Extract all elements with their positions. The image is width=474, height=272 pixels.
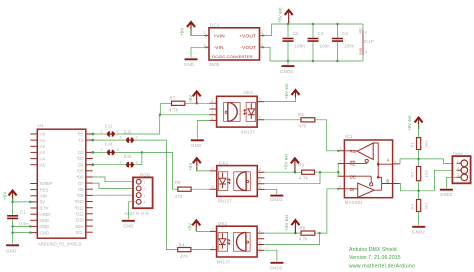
svg-text:MAX481: MAX481: [345, 200, 363, 205]
junction (IC1 pin1): [337, 150, 339, 152]
svg-text:0505: 0505: [209, 62, 220, 67]
wire DMX pin3 to GND2: [446, 177, 456, 188]
ground GND (DC1 input): [184, 47, 198, 67]
arduino shield U1: [37, 123, 86, 246]
svg-text:8: 8: [365, 31, 367, 35]
wire VO node to OK3 pin 6: [160, 114, 210, 116]
svg-text:470: 470: [180, 254, 188, 259]
wire OK1 pin5 to GND2: [264, 189, 276, 194]
svg-text:2: 2: [339, 160, 341, 164]
ground GND2 (DMX): [440, 190, 453, 197]
wire OK2 pin8 to R8: [264, 232, 301, 234]
svg-text:+5V ext: +5V ext: [284, 214, 289, 230]
svg-text:A3: A3: [40, 150, 46, 155]
svg-text:U1: U1: [38, 123, 45, 128]
solder jumper SJ3: [100, 142, 119, 156]
svg-text:IC1P: IC1P: [364, 39, 374, 44]
svg-text:8: 8: [259, 229, 261, 233]
ground GND2 (OK2): [270, 263, 284, 271]
svg-text:R4: R4: [179, 242, 185, 247]
wire R3 to GND2: [418, 212, 420, 226]
svg-text:SCL: SCL: [76, 230, 85, 235]
junction (C2 bottom): [287, 60, 290, 63]
svg-text:2: 2: [211, 167, 213, 171]
svg-text:1: 1: [100, 148, 102, 152]
svg-text:DC/DC CONVERTER: DC/DC CONVERTER: [212, 54, 252, 59]
pin number 1 (DC1 -VIN): [203, 42, 206, 47]
svg-text:DC1: DC1: [210, 22, 220, 27]
resistor R4: [178, 242, 191, 258]
wire DC1 pin 1: [191, 46, 209, 48]
wire R7 right to +5V node: [185, 102, 210, 104]
svg-text:7: 7: [211, 105, 213, 109]
svg-text:DMX: DMX: [453, 151, 463, 156]
svg-text:3: 3: [211, 185, 213, 189]
svg-text:DE: DE: [350, 174, 356, 179]
svg-text:+5V ext: +5V ext: [407, 115, 412, 131]
pin number 3 (DC1 -VOUT): [261, 42, 264, 47]
pin number 4 (DC1 +VOUT): [261, 30, 264, 35]
resistor R5: [264, 112, 315, 129]
svg-text:+VOUT: +VOUT: [239, 33, 256, 38]
OK1 pin stubs right: [257, 168, 264, 189]
svg-text:SJ3: SJ3: [105, 142, 113, 147]
svg-text:SJ4: SJ4: [124, 154, 132, 159]
svg-text:RES: RES: [40, 187, 49, 192]
svg-text:6N137: 6N137: [217, 259, 231, 264]
svg-text:2: 2: [212, 227, 214, 231]
svg-text:8: 8: [259, 168, 261, 172]
power flag +5V (OK3): [188, 91, 201, 103]
svg-text:D4: D4: [78, 162, 84, 167]
optocoupler OK1: [217, 161, 257, 204]
resistor R2: [409, 167, 428, 181]
svg-text:1: 1: [119, 136, 121, 140]
svg-text:GND: GND: [184, 62, 194, 67]
connector DMX: [452, 151, 470, 183]
resistor R9: [298, 163, 315, 181]
wire node A to DMX pin1: [419, 159, 457, 164]
junction (C4 top): [336, 23, 339, 26]
svg-text:VCC: VCC: [359, 27, 363, 34]
svg-text:+5V: +5V: [3, 191, 8, 200]
OK2 pin stubs left: [210, 227, 217, 249]
svg-text:+5V ext: +5V ext: [283, 153, 288, 169]
capacitor C4: [332, 24, 355, 61]
power flag +5V ext (OK1): [283, 153, 299, 172]
resistor R6: [175, 180, 192, 199]
svg-text:GND: GND: [359, 48, 363, 55]
wire R4 to OK2 pin3: [191, 249, 210, 251]
svg-text:1: 1: [339, 147, 341, 151]
svg-text:3: 3: [212, 246, 214, 250]
power flag +5V (OK1): [188, 158, 201, 171]
junction (+5Vext at OK2): [294, 232, 297, 235]
power flag +5V (U1 supply): [3, 191, 17, 202]
IC1 pin stubs right: [393, 160, 400, 184]
svg-text:GND2: GND2: [280, 69, 293, 74]
wire OK3 pin 5 to GND: [197, 120, 209, 138]
wire R7 left to VO node: [159, 103, 161, 115]
svg-text:D13: D13: [76, 218, 84, 223]
OK3 pin stubs right: [257, 98, 264, 120]
svg-text:2: 2: [259, 98, 261, 102]
svg-text:3: 3: [259, 116, 261, 120]
wire OK2 pin5 to GND2: [264, 250, 277, 261]
svg-text:VIN: VIN: [40, 194, 47, 199]
svg-text:7: 7: [259, 174, 261, 178]
svg-text:2: 2: [117, 148, 119, 152]
ground GND (RGB): [122, 221, 135, 229]
svg-text:R7: R7: [170, 96, 176, 101]
svg-text:D2: D2: [78, 150, 84, 155]
wire SJ3/SJ4 node to R6: [142, 152, 178, 189]
junction (C3 bottom): [312, 60, 315, 63]
svg-text:DI: DI: [350, 187, 355, 192]
wire C1 to U1 GND pins: [13, 226, 31, 232]
pin number 2 (DC1 +VIN): [203, 30, 206, 35]
wire DC1 -VOUT to GND2 rail: [260, 47, 364, 61]
junction (+5Vext at OK1): [294, 171, 297, 174]
svg-text:OK2: OK2: [218, 221, 228, 226]
wire R9 to RE/DE node: [315, 171, 339, 173]
junction (+5V at R7): [195, 102, 198, 105]
svg-text:562: 562: [424, 140, 429, 148]
junction (SJ3/SJ4 node): [141, 151, 144, 154]
svg-text:1: 1: [100, 130, 102, 134]
svg-text:562: 562: [424, 202, 429, 210]
solder jumper SJ1: [100, 123, 119, 137]
svg-text:2: 2: [457, 166, 459, 170]
ground GND2 (cap rail): [280, 61, 295, 74]
svg-text:5: 5: [365, 51, 367, 55]
svg-text:SJ2: SJ2: [124, 130, 132, 135]
svg-text:7: 7: [394, 179, 396, 183]
svg-text:C2: C2: [293, 31, 299, 36]
svg-text:GND: GND: [40, 230, 49, 235]
svg-text:R2: R2: [409, 171, 414, 177]
wire OK1 pin8 to R9: [264, 171, 301, 173]
transceiver IC1 MAX481: [344, 134, 392, 205]
svg-text:www.mathertel.de/Arduino: www.mathertel.de/Arduino: [349, 263, 415, 269]
resistor R1: [409, 138, 428, 150]
svg-text:GND2: GND2: [270, 266, 283, 271]
svg-text:1: 1: [457, 159, 459, 163]
junction (VO node): [159, 114, 162, 117]
svg-text:2: 2: [143, 187, 145, 191]
OK3 pin stubs left: [210, 99, 217, 120]
wire +5V to DC1 pin 2: [191, 29, 209, 36]
resistor R7: [160, 96, 185, 113]
svg-text:GND2: GND2: [270, 197, 283, 202]
wire RX riser to VO node: [159, 115, 161, 134]
power flag +5V ext (top rail): [278, 7, 293, 24]
svg-text:5: 5: [211, 116, 213, 120]
svg-text:4: 4: [143, 201, 145, 205]
solder jumper SJ2: [119, 130, 138, 143]
wire RE/DE tie: [337, 164, 340, 177]
junction (5V node left): [11, 201, 14, 204]
svg-text:Arduino DMX Shield: Arduino DMX Shield: [349, 247, 397, 253]
wire IC1 B to node B: [400, 184, 419, 191]
svg-text:6N137: 6N137: [241, 129, 255, 134]
svg-text:2: 2: [136, 136, 138, 140]
ground GND (C1): [6, 245, 19, 253]
wire DC1 +VOUT to +5Vext rail: [260, 24, 364, 36]
wire TX to SJ2: [91, 139, 125, 142]
ground GND2 (OK1): [270, 196, 284, 203]
ground GND (OK3): [191, 140, 204, 148]
U1 right pins RX..SCL: [74, 132, 92, 235]
svg-text:C4: C4: [342, 31, 348, 36]
svg-text:R9: R9: [298, 163, 304, 168]
power pins IC1P: [359, 24, 374, 61]
svg-text:+5V: +5V: [188, 162, 193, 170]
connector RGB: [125, 173, 153, 216]
svg-text:+5V ext: +5V ext: [278, 7, 283, 23]
svg-text:133: 133: [424, 170, 429, 178]
svg-text:100n: 100n: [295, 44, 306, 49]
svg-text:B: B: [386, 179, 389, 184]
svg-text:-VOUT: -VOUT: [240, 45, 256, 50]
svg-text:GND: GND: [191, 143, 201, 148]
OK2 pin stubs right: [257, 229, 264, 250]
junction (C2 top): [287, 23, 290, 26]
junction (C3 top): [312, 23, 315, 26]
wire D6 to RGB pin1: [93, 177, 137, 182]
svg-text:3: 3: [143, 194, 145, 198]
svg-text:5: 5: [259, 246, 261, 250]
optocoupler OK2: [217, 221, 258, 264]
svg-text:100n: 100n: [344, 44, 355, 49]
svg-text:GND2: GND2: [440, 192, 453, 197]
svg-text:6: 6: [211, 111, 213, 115]
junction (RE/DE node): [337, 171, 340, 174]
junction node B: [417, 190, 420, 193]
svg-text:4.7k: 4.7k: [169, 107, 179, 112]
wire D7 to RGB pin2: [93, 183, 137, 188]
svg-text:OK1: OK1: [219, 161, 229, 166]
IC1 pin stubs left: [338, 147, 345, 189]
resistor R8: [299, 225, 315, 241]
svg-text:AREF: AREF: [40, 212, 51, 217]
svg-text:5: 5: [259, 185, 261, 189]
svg-text:GND2: GND2: [412, 229, 425, 234]
svg-text:R6: R6: [175, 180, 181, 185]
wire RX to SJ1: [91, 133, 106, 136]
wire to R1: [418, 124, 420, 138]
junction (C4 bottom): [336, 60, 339, 63]
svg-text:4.7k: 4.7k: [299, 176, 309, 181]
svg-text:A: A: [387, 158, 390, 163]
wire SJ2 to TX net riser: [134, 139, 166, 141]
svg-text:RO: RO: [350, 149, 357, 154]
svg-text:1: 1: [119, 160, 121, 164]
wire IC1 A to node A: [400, 159, 419, 164]
svg-text:RE: RE: [350, 162, 356, 167]
svg-text:A2: A2: [40, 144, 46, 149]
optocoupler OK3: [217, 90, 258, 134]
svg-text:8: 8: [211, 99, 213, 103]
wire R8 node to OK2 pin6: [264, 233, 319, 244]
wire R9 node to OK1 pin6: [264, 172, 320, 184]
svg-text:GND: GND: [40, 218, 49, 223]
dc/dc converter DC1: [205, 22, 265, 67]
svg-text:R3: R3: [409, 203, 414, 209]
svg-text:A5: A5: [40, 162, 46, 167]
wire R5 to IC1 RO: [315, 120, 338, 151]
svg-text:IOREF: IOREF: [40, 181, 53, 186]
svg-text:-VIN: -VIN: [214, 45, 224, 50]
junction (GND rows): [11, 225, 31, 234]
svg-text:*D9: *D9: [77, 193, 85, 198]
svg-text:ARDUINO_R3_SHIELD: ARDUINO_R3_SHIELD: [38, 242, 81, 247]
junction (R9 out): [319, 171, 322, 174]
wire +5V to U1 5V pin: [13, 198, 31, 202]
svg-text:A4: A4: [40, 156, 46, 161]
junction (R8 out): [318, 232, 321, 235]
svg-text:470: 470: [299, 124, 307, 129]
svg-text:7: 7: [259, 235, 261, 239]
wire SJ4 to node: [134, 152, 142, 164]
capacitor C2: [283, 24, 306, 61]
power flag +5V (DC1 input): [180, 22, 196, 36]
wire SJ3 to node: [115, 151, 142, 153]
svg-text:A1: A1: [40, 138, 46, 143]
wire D4 to SJ4: [91, 163, 125, 166]
junction node A: [417, 158, 420, 161]
power flag +5V (OK2): [187, 220, 200, 231]
svg-text:3: 3: [339, 172, 341, 176]
power flag +5V ext (OK3): [284, 83, 300, 99]
svg-text:*D11: *D11: [75, 205, 85, 210]
wire node B to DMX pin2: [419, 170, 457, 191]
power flag +5V ext (bias): [407, 115, 423, 131]
junction (IC1 pin4): [337, 188, 339, 190]
svg-text:5V: 5V: [40, 200, 45, 205]
capacitor C1: [7, 202, 29, 244]
svg-text:6: 6: [394, 160, 396, 164]
power flag +5V ext (OK2): [284, 214, 300, 233]
wire R6 to OK1 pin3: [191, 188, 210, 190]
svg-text:OK3: OK3: [244, 90, 254, 95]
OK1 pin stubs left: [210, 167, 217, 189]
svg-text:2: 2: [117, 130, 119, 134]
svg-text:6: 6: [259, 180, 261, 184]
svg-text:+5V: +5V: [180, 27, 185, 36]
svg-text:R8: R8: [299, 225, 305, 230]
svg-text:2: 2: [136, 160, 138, 164]
svg-text:SJ1: SJ1: [105, 123, 113, 128]
resistor R3: [409, 200, 428, 212]
svg-text:RGB: RGB: [140, 173, 150, 178]
junction (5V at U1 pin): [29, 201, 32, 204]
svg-text:+5V ext: +5V ext: [284, 83, 289, 99]
svg-text:*D3: *D3: [77, 156, 85, 161]
svg-text:C1: C1: [20, 209, 26, 214]
svg-text:GND: GND: [123, 224, 133, 229]
title text: [349, 247, 415, 270]
svg-text:3.3V: 3.3V: [40, 206, 49, 211]
svg-text:RX: RX: [78, 132, 84, 137]
wire D9 to RGB pin3: [93, 194, 137, 196]
wire R8 to IC1 DI riser: [315, 189, 338, 233]
svg-text:*D10: *D10: [74, 199, 84, 204]
svg-text:TX: TX: [78, 138, 84, 143]
svg-text:100n: 100n: [19, 222, 30, 227]
svg-text:3: 3: [457, 173, 459, 177]
svg-text:+5V: +5V: [187, 223, 192, 231]
wire R1 to node A: [418, 150, 420, 167]
wire OK3 pin2 to +5Vext: [264, 97, 295, 101]
wire R2 to node B: [418, 181, 420, 200]
svg-text:470: 470: [175, 194, 183, 199]
ground GND2 (bias): [412, 227, 425, 235]
U1 left pins A0..GND: [30, 132, 53, 236]
svg-text:C3: C3: [318, 31, 324, 36]
svg-text:SDA: SDA: [75, 224, 84, 229]
svg-text:D7: D7: [78, 181, 84, 186]
svg-text:100n: 100n: [320, 44, 331, 49]
svg-text:IC1: IC1: [345, 134, 353, 139]
svg-text:*D6: *D6: [77, 175, 85, 180]
svg-text:*D5: *D5: [77, 169, 85, 174]
wire SJ1 to RX net riser: [115, 133, 159, 135]
svg-text:6N137: 6N137: [218, 199, 232, 204]
svg-text:4.7k: 4.7k: [299, 237, 309, 242]
wire SJ2 to R4 (long riser): [166, 140, 177, 250]
svg-text:GND: GND: [40, 224, 49, 229]
wire +5V to OK1 pin2: [197, 165, 210, 171]
svg-text:Version 7, 21.06.2015: Version 7, 21.06.2015: [349, 255, 401, 261]
svg-text:R1: R1: [409, 141, 414, 147]
wire RGB pin4 to GND: [128, 202, 137, 220]
svg-text:D8: D8: [78, 187, 84, 192]
svg-text:D12: D12: [76, 212, 84, 217]
wire +5V to OK2 pin2: [196, 227, 210, 231]
svg-text:A0: A0: [40, 132, 46, 137]
svg-text:4: 4: [339, 185, 341, 189]
wire D2 to SJ3: [91, 151, 106, 154]
svg-text:+VIN: +VIN: [214, 33, 225, 38]
svg-text:1: 1: [143, 180, 145, 184]
svg-text:GND: GND: [6, 249, 16, 254]
capacitor C3: [308, 24, 331, 61]
svg-text:R5: R5: [298, 112, 304, 117]
solder jumper SJ4: [119, 154, 138, 167]
svg-text:6: 6: [259, 240, 261, 244]
